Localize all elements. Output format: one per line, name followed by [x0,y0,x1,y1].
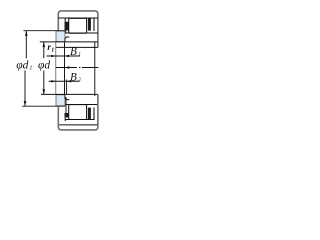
outer ring left rib line top [64,18,67,33]
outer ring outline top [58,11,98,48]
d1 extension line bottom [22,105,65,107]
dimension B1 line with outside arrows [47,55,80,57]
outer ring right rib block top [88,18,91,30]
extension line inner ring face (for B2) [66,80,68,95]
roller pocket bottom line bottom section [65,119,94,121]
d1 extension line top [24,30,66,32]
svg-text:1: 1 [78,51,81,57]
outer ring bore line bottom [58,124,98,126]
inner ring chamfer corner bottom [65,95,69,100]
outer ring bore line top [58,17,98,19]
centerline dimension with left arrow [56,67,99,69]
angle ring (blue) bottom section [56,95,65,106]
outer ring left rib line bottom [64,117,66,121]
bore line bottom [41,93,98,95]
bore line top [56,46,98,48]
svg-text:B: B [70,46,77,58]
svg-text:1: 1 [29,66,32,72]
outer ring left rib block top [65,22,69,31]
outer ring right rib line bottom [93,108,95,120]
outer ring outline bottom [58,94,98,129]
extension line collar left face [55,42,57,94]
svg-text:φd: φd [16,59,28,71]
svg-text:2: 2 [78,77,81,83]
angle ring (blue) top section [56,31,65,42]
inner ring raceway line top [65,32,98,34]
outer ring right rib line top [93,18,95,31]
svg-text:B: B [70,71,77,83]
outer ring right rib block bottom [88,108,91,120]
svg-text:φd: φd [38,59,50,71]
dimension B2 line with outside arrows [49,80,80,82]
inner ring face line bottom [65,97,67,113]
right extension line (bearing face) [94,42,96,96]
roller top [69,18,87,33]
inner ring raceway line bottom [65,104,98,106]
dimension phi d1 vertical line [25,31,26,107]
dimension phi d vertical line [43,42,45,95]
outer ring left rib block bottom [65,113,69,117]
left extension line (collar face) [64,43,66,95]
inner ring chamfer corner top [65,37,69,42]
roller bottom [69,105,87,120]
svg-text:1: 1 [51,48,54,54]
inner ring mid line / d extension top [40,41,98,43]
